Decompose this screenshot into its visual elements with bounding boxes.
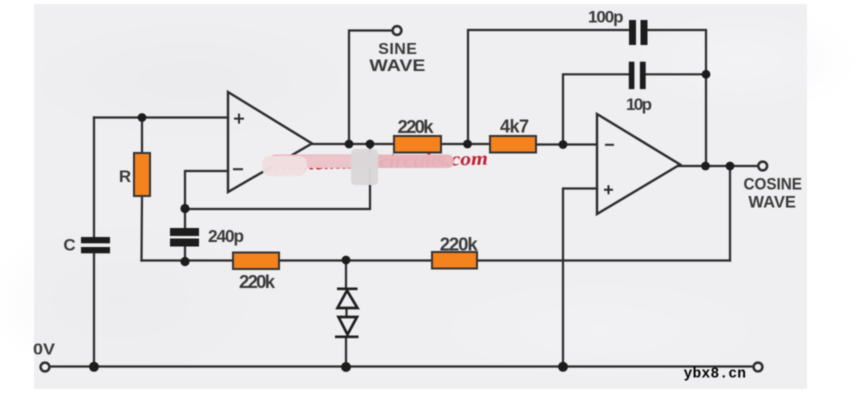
node: diode top junction — [342, 256, 351, 265]
wire: U1 non-inverting input rail — [94, 116, 228, 118]
wire: left branch with capacitor C down to 0V rail — [93, 118, 95, 367]
svg-text:WAVE: WAVE — [748, 193, 796, 211]
svg-text:ybx8.cn: ybx8.cn — [684, 367, 746, 383]
watermark smudge band left half extra cover — [272, 156, 357, 169]
capacitor 10p — [629, 62, 646, 89]
svg-text:0V: 0V — [33, 342, 55, 359]
watermark smudge band — [269, 155, 454, 169]
wire: bottom horizontal net — [142, 259, 731, 261]
resistor 220k (bottom left) — [233, 253, 279, 270]
wire: R leads — [140, 118, 143, 261]
node: U1 feedback junction — [366, 140, 375, 149]
svg-text:10p: 10p — [626, 95, 652, 114]
wire: 100p feedback loop top — [468, 30, 706, 161]
wire: 240p top lead — [184, 209, 186, 228]
op-amp U2 — [597, 114, 680, 214]
node: U2 output junction at 100p — [701, 162, 710, 171]
svg-text:C: C — [63, 236, 75, 255]
node: rail-C junction — [89, 362, 99, 372]
wire: lead between diodes — [345, 308, 347, 317]
node: U2 output feedback junction — [726, 162, 735, 171]
watermark smudge gray blob — [351, 149, 378, 185]
label SINE WAVE — [369, 41, 425, 75]
svg-text:R: R — [119, 167, 131, 186]
svg-text:COSINE: COSINE — [744, 176, 803, 194]
label COSINE WAVE — [744, 176, 803, 212]
svg-text:240p: 240p — [208, 226, 244, 246]
node: U2 inverting input junction — [559, 140, 568, 149]
resistor 220k (top) — [394, 136, 441, 153]
wire: 4k7 to U2 inverting input — [536, 143, 597, 145]
capacitor 100p (vertical plates) — [629, 20, 648, 45]
svg-text:WAVE: WAVE — [369, 57, 425, 75]
resistor 4k7 — [490, 136, 536, 153]
node: SINE takeoff junction — [345, 140, 354, 149]
wire: U2 non-inverting input down to 0V rail — [563, 189, 597, 367]
wire: U1 output to 220k — [312, 143, 394, 145]
node: 240p bottom junction — [180, 257, 189, 266]
svg-text:4k7: 4k7 — [500, 116, 529, 136]
wire: diode branch bottom lead — [345, 339, 347, 367]
op-amp U1 — [228, 92, 312, 192]
diode D1 (cathode up) — [337, 289, 358, 308]
node: U1 + input / R junction — [138, 113, 147, 122]
wire: 220k to 4k7 — [441, 143, 490, 145]
svg-text:100p: 100p — [588, 7, 624, 26]
node: 240p top junction — [180, 204, 189, 213]
wire: 240p bottom lead — [184, 247, 186, 263]
wire: diode branch top lead — [345, 261, 347, 288]
diode D2 (cathode down) — [335, 317, 359, 337]
node: rail-U2 input junction — [558, 362, 568, 372]
wire: U2 output to COSINE terminal — [679, 165, 757, 167]
watermark smudge left blob — [262, 156, 307, 176]
wire: SINE output stub from U1 output up and right to terminal — [349, 31, 392, 145]
svg-text:220k: 220k — [440, 234, 479, 255]
svg-text:SINE: SINE — [378, 41, 417, 58]
resistor 220k (bottom middle) — [432, 252, 477, 269]
svg-text:220k: 220k — [239, 271, 276, 292]
node: 100p loop junction — [463, 140, 472, 149]
resistor R (vertical) — [134, 153, 150, 196]
wire: 10p feedback loop — [563, 74, 706, 144]
terminal: bottom right — [754, 363, 763, 372]
node: rail-diode junction — [341, 362, 351, 372]
terminal: 0V — [41, 363, 50, 372]
svg-text:220k: 220k — [398, 116, 435, 137]
capacitor C (left, horizontal plates) — [81, 237, 110, 253]
terminal: SINE WAVE output — [393, 26, 402, 35]
capacitor 240p — [170, 228, 199, 247]
wire: U1 feedback from output down-left-up to inverting input — [185, 144, 370, 209]
node: 10p to 100p vertical junction — [702, 70, 711, 79]
terminal: COSINE WAVE output — [758, 162, 767, 171]
watermark: homemade-circuits.com — [275, 148, 489, 175]
wire: 0V rail — [50, 365, 753, 367]
wire: U2 output feedback down to bottom net — [729, 166, 731, 261]
